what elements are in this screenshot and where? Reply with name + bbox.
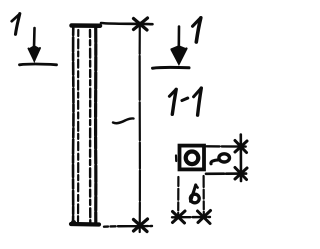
bottom b: right extension line [203, 176, 205, 214]
leader squiggle at column mid-right [113, 118, 134, 123]
bottom extension line [104, 225, 152, 228]
right b: bottom extension line [206, 172, 248, 175]
right b: top cross [235, 141, 247, 153]
section cut arrow (right) [172, 27, 187, 65]
right b: bottom cross [235, 168, 247, 180]
column right inner edge (dashed) [89, 30, 92, 223]
right b: label (rotated) [211, 154, 230, 164]
bottom b: right cross [198, 211, 211, 224]
column top cap [72, 23, 101, 28]
right b: dimension line [240, 135, 243, 182]
bottom b: dimension line [172, 216, 210, 219]
right b: top extension line [207, 145, 247, 148]
column bottom cap [71, 222, 99, 227]
bottom b: label [190, 185, 199, 203]
section label 1 (top-left) [12, 14, 20, 35]
section cut arrow (top-left) [29, 28, 41, 61]
bottom b: left extension line [177, 177, 179, 214]
section label 1 (top-right) [193, 18, 201, 42]
column left outer edge [72, 26, 75, 224]
column right outer edge [94, 26, 97, 224]
top arrow cross [134, 18, 148, 30]
section circle [186, 152, 199, 165]
section title 1-1 [169, 88, 201, 115]
section cut line (right) [153, 66, 190, 70]
column left inner edge (dashed) [77, 30, 80, 224]
section cut line (top-left) [20, 63, 57, 66]
top extension line [101, 23, 153, 24]
vertical dimension line [139, 24, 141, 232]
corner blob [71, 220, 76, 225]
bottom arrow cross [134, 219, 148, 232]
small tick left of square [175, 156, 177, 162]
bottom b: left cross [173, 211, 186, 223]
section square outline [180, 146, 205, 170]
